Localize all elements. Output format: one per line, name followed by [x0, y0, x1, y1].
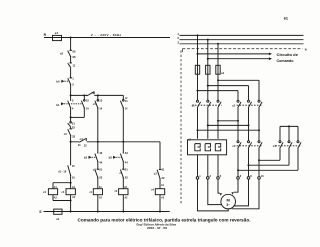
svg-text:Comando para motor elétrico tr: Comando para motor elétrico trifásico, p…: [78, 217, 251, 222]
svg-text:13: 13: [86, 98, 89, 102]
fuse e1 power 2: [206, 65, 210, 74]
terminal W1: [217, 177, 220, 180]
colC vertical: [97, 95, 99, 211]
overload relay e2: [188, 137, 227, 154]
svg-text:95: 95: [73, 50, 76, 54]
svg-text:22: 22: [125, 176, 128, 180]
svg-text:2004 - 07 - 06: 2004 - 07 - 06: [147, 226, 168, 230]
svg-text:d1 - 16: d1 - 16: [58, 170, 67, 173]
svg-text:e1: e1: [55, 31, 59, 35]
wire bus L2: [180, 39, 304, 41]
button b2 on colC: [84, 151, 103, 164]
contact c2 13-14 on colD: [120, 98, 128, 110]
terminal W2: [237, 177, 240, 180]
wire swap row a: [218, 120, 238, 122]
svg-text:c3: c3: [232, 144, 235, 148]
wire coil pair top join: [53, 183, 71, 189]
wire feed to c2 pole2: [208, 86, 249, 100]
svg-text:13: 13: [99, 99, 102, 103]
terminal V1: [207, 177, 210, 180]
wire bus N dashed: [183, 49, 303, 52]
terminal V2: [258, 177, 261, 180]
node bus junctions: [70, 211, 72, 213]
motor M 3~: [221, 194, 236, 209]
button b1 with contact on colA: [56, 99, 82, 111]
node control taps: [197, 53, 199, 55]
motor lead arrow right: [231, 192, 233, 195]
svg-text:e2: e2: [188, 137, 192, 141]
wire arrow to control 2: [208, 57, 272, 60]
wire link c3p1-c4p3: [238, 149, 298, 171]
svg-text:e1: e1: [221, 71, 224, 75]
svg-text:Engº Edilson Alfredo da Silva: Engº Edilson Alfredo da Silva: [137, 223, 177, 227]
contact c1 13-14 on colC: [93, 99, 103, 111]
colD vertical: [122, 95, 124, 211]
wire main rail colA: [70, 38, 72, 212]
svg-text:21: 21: [72, 121, 75, 125]
node coil pair top: [70, 182, 72, 184]
coil c2 (branch D): [115, 186, 129, 199]
wire star bus c4: [280, 126, 298, 140]
svg-text:b2: b2: [84, 156, 88, 160]
svg-text:14: 14: [99, 106, 102, 110]
fuse e1 power 1: [195, 65, 199, 74]
node row2 junction: [70, 141, 72, 143]
wire bottom bus: [44, 211, 170, 213]
contact d1 11-12: [68, 62, 76, 67]
wire link c3p2-c4p2: [249, 149, 290, 166]
contactor c3 (3 poles): [232, 141, 262, 149]
node crossover taps: [217, 79, 219, 81]
terminal U1: [196, 177, 199, 180]
svg-text:43: 43: [99, 151, 102, 155]
svg-text:N: N: [305, 47, 307, 51]
node branch junction: [70, 94, 72, 96]
wire motor leads left: [198, 179, 229, 211]
svg-text:61: 61: [284, 16, 288, 20]
wire coil pair bottom join: [53, 195, 71, 201]
svg-text:e2: e2: [60, 51, 64, 55]
contact c4 (in-line NC): [78, 137, 87, 148]
wire bus L3: [180, 43, 304, 45]
contact d1 15-16 on colA: [58, 164, 75, 179]
wire branch row1: [71, 94, 124, 96]
button b0: [56, 77, 74, 87]
svg-text:3~: 3~: [226, 203, 230, 207]
svg-text:44: 44: [99, 160, 102, 164]
wire motor leads right: [234, 179, 238, 192]
wire c3/c4 nodes down to terminals: [238, 160, 259, 176]
node junction top: [70, 37, 72, 39]
wire swap row c: [198, 129, 260, 131]
contact e2 95-96: [60, 49, 76, 59]
svg-text:21: 21: [99, 167, 102, 171]
colE vertical: [159, 142, 161, 212]
coil c1: [43, 186, 58, 200]
wire branch row2: [71, 141, 160, 143]
wire feed to c2 pole3: [218, 80, 259, 100]
contactor c4 (3 poles): [273, 141, 302, 149]
motor lead arrow left: [220, 193, 222, 196]
contactor c1 (3 poles): [192, 100, 222, 108]
contact d1 NC on colA: [68, 121, 76, 129]
node colC top: [97, 94, 99, 96]
svg-text:21: 21: [125, 167, 128, 171]
coil c4 (branch E): [151, 184, 165, 199]
svg-text:22: 22: [72, 125, 75, 129]
contact c1 NC on colD: [120, 167, 129, 179]
wire c1 poles down to e2: [198, 108, 219, 139]
wire arrow to control 1: [198, 53, 273, 56]
contact c2 NC on colC: [93, 167, 103, 179]
fuse e1 (bottom): [54, 209, 62, 214]
wire link c3p3-c4p1: [259, 149, 280, 161]
svg-text:21: 21: [162, 168, 165, 172]
wire e2 down to terminals: [198, 155, 219, 177]
wire swap row b: [208, 124, 249, 126]
contact c3 NC on colE: [154, 168, 165, 181]
wire c3 bottoms down: [238, 149, 259, 171]
svg-text:c2: c2: [91, 91, 94, 95]
svg-text:Comando: Comando: [277, 59, 294, 63]
svg-text:43: 43: [125, 151, 128, 155]
contact c2 (in-line NC): [86, 91, 95, 96]
svg-text:14: 14: [86, 106, 89, 110]
contact c1 13-14 seal on colB: [81, 95, 89, 117]
wire feed to c2 pole1: [198, 91, 239, 100]
svg-text:22: 22: [99, 176, 102, 180]
contact c3 NC on colA: [64, 129, 76, 139]
wire bus L1: [180, 34, 304, 36]
fuse e1 (control): [53, 35, 62, 40]
svg-text:b1: b1: [56, 103, 60, 107]
wire c2 poles down to c3: [238, 108, 259, 141]
svg-text:96: 96: [73, 55, 76, 59]
node colB top: [83, 94, 85, 96]
coil d1: [62, 186, 76, 199]
svg-text:22: 22: [162, 176, 165, 180]
coil c1 (branch C): [89, 186, 102, 199]
svg-text:22: 22: [72, 135, 75, 139]
wire top feed: [44, 37, 170, 39]
terminal U2: [247, 177, 250, 180]
wire seal join: [71, 116, 85, 118]
wire phase verticals to fuses: [198, 35, 219, 100]
svg-text:2 ~ - 220V - 60Hz: 2 ~ - 220V - 60Hz: [91, 33, 121, 37]
svg-text:e1: e1: [56, 217, 59, 221]
contactor c2 (3 poles): [232, 100, 262, 108]
fuse e1 power 3: [216, 65, 220, 74]
svg-text:44: 44: [125, 160, 128, 164]
svg-text:Circuito de: Circuito de: [277, 53, 299, 57]
svg-text:b0: b0: [56, 80, 60, 84]
svg-text:c1: c1: [43, 190, 47, 194]
node taps on buses: [197, 34, 199, 36]
svg-text:b3: b3: [109, 156, 113, 160]
svg-text:c4: c4: [80, 137, 83, 141]
wire dashed separator: [180, 51, 182, 206]
button b3 on colD: [109, 151, 129, 164]
svg-text:c2: c2: [232, 103, 235, 107]
